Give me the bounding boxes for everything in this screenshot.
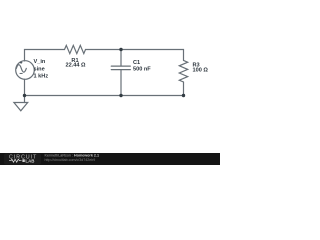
svg-text:500 nF: 500 nF [133,66,151,72]
footer bar [0,153,220,165]
wire source-bottom segment [24,79,26,95]
svg-text:100 Ω: 100 Ω [193,68,209,74]
svg-text:1 kHz: 1 kHz [34,74,49,80]
svg-text:LAB: LAB [25,159,34,164]
svg-text:sine: sine [34,66,45,72]
node junction dots [23,48,185,97]
capacitor C1 branch bottom wire [120,70,122,96]
voltage source polarity marks [20,61,23,73]
svg-text:22.44 Ω: 22.44 Ω [65,63,86,69]
node: R3 bottom [182,94,185,97]
capacitor C1 plates [111,65,130,67]
node: C1 bottom [119,94,122,97]
CircuitLab logo resistor glyph [9,159,22,162]
component labels [34,58,209,80]
wire top-right segment [86,50,184,61]
wire right-bottom segment [183,82,185,96]
node: source to bottom wire [23,94,26,97]
CircuitLab logo text [9,154,37,163]
svg-text:KennethLaRson : Homework 2.1: KennethLaRson : Homework 2.1 [45,154,100,158]
resistor R3 [179,60,187,82]
ground stub [24,96,26,103]
resistor R1 [65,45,86,53]
wire top-left segment [25,50,65,61]
voltage source V_in circle [16,61,35,80]
wire bottom segment [25,95,184,97]
svg-text:C1: C1 [133,60,140,66]
svg-text:http://circuitlab.com/c/3d742e: http://circuitlab.com/c/3d742eb9 [45,158,96,162]
node: C1 top [119,48,122,51]
capacitor C1 branch top wire [120,50,122,67]
svg-text:V_in: V_in [34,59,46,65]
voltage source sine symbol [16,65,26,72]
ground symbol [14,103,28,111]
